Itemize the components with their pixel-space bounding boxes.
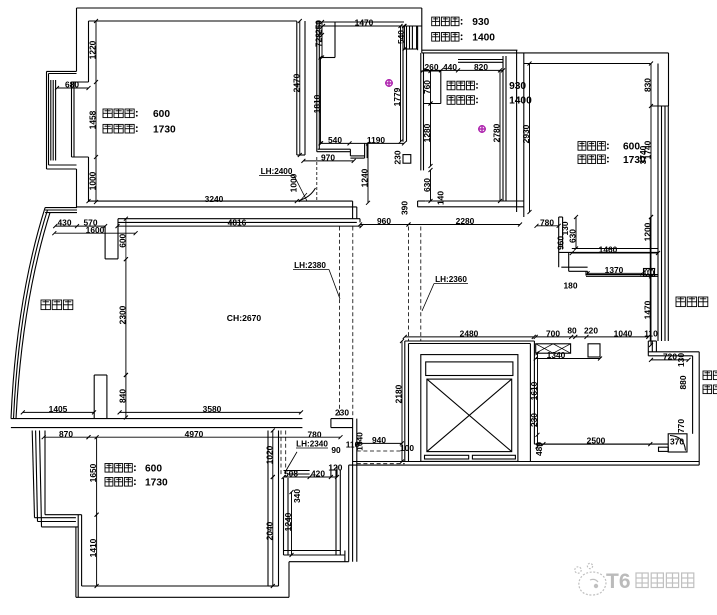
svg-text:230: 230 (529, 413, 539, 427)
elevator car (421, 355, 518, 462)
svg-text:120: 120 (328, 463, 342, 473)
svg-text:1458: 1458 (88, 110, 98, 129)
svg-text:600: 600 (145, 464, 162, 475)
room5 corner door box + arc (668, 434, 687, 452)
svg-text:2300: 2300 (118, 305, 128, 324)
room1 bottom wall (89, 200, 353, 202)
svg-text:370: 370 (670, 437, 684, 447)
svg-text:180: 180 (564, 281, 578, 291)
room4 right outer wall top (668, 53, 670, 106)
svg-text:1460: 1460 (599, 245, 618, 255)
room4 inner top wall (524, 63, 651, 65)
svg-text:1600: 1600 (86, 225, 105, 235)
svg-text:390: 390 (400, 201, 410, 215)
bath2 right wall (402, 26, 404, 142)
bathroom2 left wall (316, 21, 318, 152)
svg-text:100: 100 (400, 443, 414, 453)
svg-text:1400: 1400 (509, 96, 532, 107)
svg-text:440: 440 (443, 62, 457, 72)
outer right wall (698, 352, 700, 465)
svg-text:430: 430 (58, 218, 72, 228)
svg-text:880: 880 (678, 375, 688, 389)
window label room3 (447, 81, 455, 90)
dims room6 (23, 411, 94, 413)
svg-text:2470: 2470 (291, 73, 301, 92)
svg-text:780: 780 (308, 430, 322, 440)
floor window label right (676, 297, 685, 307)
svg-text:1280: 1280 (422, 123, 432, 142)
svg-text:1340: 1340 (547, 350, 566, 360)
living room top wall (118, 218, 360, 220)
left outer wall upper (76, 8, 78, 71)
elevator shaft walls (405, 340, 535, 342)
dims room5 top (536, 336, 649, 338)
svg-text:2930: 2930 (521, 124, 531, 143)
axis marker 1 (385, 79, 393, 87)
watermark logo (575, 563, 606, 595)
svg-text:3580: 3580 (203, 404, 222, 414)
bottom outer wall (353, 461, 700, 463)
svg-text:130: 130 (676, 353, 686, 367)
corridor wall pair down (352, 419, 354, 562)
curved curtain wall (11, 208, 45, 419)
bath2 bottom wall (318, 148, 351, 150)
living west wall stub B (93, 375, 95, 419)
room4 bottom wall (572, 248, 658, 250)
svg-text:1730: 1730 (623, 155, 646, 166)
svg-text:600: 600 (623, 142, 640, 153)
svg-text:1640: 1640 (355, 432, 365, 451)
room6 bay window (32, 431, 34, 518)
svg-text:1410: 1410 (88, 538, 98, 557)
dims room4 (529, 64, 531, 213)
bath2 duct box (334, 22, 336, 58)
top wall right section (422, 49, 518, 51)
svg-text:1240: 1240 (360, 168, 370, 187)
svg-text:600: 600 (153, 109, 170, 120)
room6 left wall (77, 515, 79, 598)
svg-text:1779: 1779 (392, 87, 402, 106)
bath2 top wall inner (317, 21, 404, 23)
svg-text:110: 110 (644, 329, 658, 339)
svg-text:LH:2340: LH:2340 (296, 439, 328, 448)
svg-text:420: 420 (311, 469, 325, 479)
left outer wall lower (76, 169, 78, 208)
svg-text:700: 700 (546, 329, 560, 339)
dims room3 (423, 69, 503, 71)
outer top wall (77, 7, 422, 9)
svg-text:230: 230 (335, 408, 349, 418)
svg-text:1190: 1190 (367, 135, 386, 145)
dims room1 left (95, 21, 97, 202)
bay window top-left (1458 window) (47, 70, 77, 72)
svg-text:T6: T6 (606, 570, 631, 593)
svg-text:230: 230 (393, 150, 403, 164)
room1 door dashes (316, 157, 318, 202)
svg-text:600: 600 (118, 233, 128, 247)
svg-text:140: 140 (436, 191, 446, 205)
svg-text:CH:2670: CH:2670 (227, 313, 262, 323)
room1 door arc (299, 188, 316, 201)
svg-text:4970: 4970 (185, 429, 204, 439)
dashed beams living room (339, 227, 341, 419)
window label room4 (578, 142, 586, 151)
svg-text:340: 340 (292, 489, 302, 503)
svg-text:4816: 4816 (228, 218, 247, 228)
bath2 window top right (403, 25, 422, 27)
svg-text:1000: 1000 (88, 171, 98, 190)
dims living west (55, 225, 105, 227)
room3 left wall + duct (420, 53, 422, 170)
svg-text:220: 220 (584, 326, 598, 336)
svg-text:2780: 2780 (492, 123, 502, 142)
svg-text:508: 508 (284, 469, 298, 479)
room1 right wall (296, 21, 298, 155)
svg-text:LH:2360: LH:2360 (435, 275, 467, 284)
room3 bottom wall (425, 200, 524, 202)
svg-text:940: 940 (372, 435, 386, 445)
axis marker 2 (478, 125, 486, 133)
svg-text:830: 830 (643, 78, 653, 92)
window label top middle (432, 17, 440, 26)
east floor-to-ceiling window (657, 106, 659, 341)
svg-text:760: 760 (422, 80, 432, 94)
svg-text:1810: 1810 (312, 94, 322, 113)
window label room1 (103, 109, 112, 118)
svg-text:480: 480 (534, 442, 544, 456)
svg-text:2500: 2500 (587, 436, 606, 446)
svg-text:540: 540 (396, 30, 406, 44)
room6 top wall (11, 418, 303, 420)
svg-text:2180: 2180 (394, 384, 404, 403)
svg-text:1400: 1400 (472, 33, 495, 44)
svg-text:870: 870 (59, 429, 73, 439)
svg-text:1470: 1470 (355, 18, 374, 28)
hatch box kitchen wall (536, 344, 571, 353)
svg-text:970: 970 (321, 153, 335, 163)
svg-text:840: 840 (118, 389, 128, 403)
room6 right wall (267, 431, 269, 587)
svg-text:540: 540 (328, 135, 342, 145)
svg-text:630: 630 (422, 178, 432, 192)
dims elevator (405, 336, 534, 338)
svg-text:2040: 2040 (264, 521, 274, 540)
outer step wall x=421.8 (421, 8, 423, 53)
svg-text:1240: 1240 (283, 512, 293, 531)
svg-text:680: 680 (65, 80, 79, 90)
svg-text:728: 728 (314, 33, 324, 47)
svg-text:1730: 1730 (153, 124, 176, 135)
svg-text:930: 930 (509, 81, 526, 92)
dims bath2 (321, 22, 323, 58)
hatch box small corridor (644, 269, 655, 277)
svg-text:1020: 1020 (264, 445, 274, 464)
wall stub x=558.7 (558, 217, 560, 267)
svg-text:1470: 1470 (643, 300, 653, 319)
svg-text:80: 80 (567, 326, 577, 336)
svg-text:770: 770 (676, 419, 686, 433)
room5 interior bottom line (534, 443, 668, 445)
svg-text:630: 630 (568, 229, 578, 243)
outer boundary step bottom middle (288, 562, 290, 598)
svg-text:1040: 1040 (614, 329, 633, 339)
svg-text:780: 780 (540, 217, 554, 227)
right edge partial labels (703, 371, 712, 380)
svg-text:3240: 3240 (205, 194, 224, 204)
svg-text:820: 820 (474, 62, 488, 72)
svg-text:LH:2400: LH:2400 (261, 167, 293, 176)
bath7 walls (283, 478, 285, 555)
room6 bottom wall (82, 585, 268, 587)
svg-text:1220: 1220 (88, 40, 98, 59)
bath7 door leaf (285, 452, 297, 473)
svg-text:930: 930 (472, 17, 489, 28)
room3 top window glazing (458, 59, 503, 61)
svg-text:2480: 2480 (460, 329, 479, 339)
room5 top-right corner post (648, 340, 656, 342)
svg-text:1610: 1610 (529, 381, 539, 400)
dashed beam hallway7 (280, 431, 282, 476)
room3 right wall (502, 56, 504, 201)
svg-text:1200: 1200 (643, 222, 653, 241)
svg-text:LH:2380: LH:2380 (294, 261, 326, 270)
svg-text:1730: 1730 (145, 478, 168, 489)
corridor walls to balcony (561, 266, 587, 268)
svg-text:90: 90 (331, 445, 341, 455)
dashed beam corridor horizontal (357, 450, 402, 452)
svg-text:1000: 1000 (289, 173, 299, 192)
svg-text:1405: 1405 (49, 404, 68, 414)
hall jog box (403, 155, 411, 164)
svg-text:1650: 1650 (88, 463, 98, 482)
svg-text:960: 960 (377, 216, 391, 226)
window label room6 (105, 464, 113, 473)
room3/room4 dividing wall (516, 50, 518, 212)
wall stub 220 (588, 344, 600, 357)
svg-text:960: 960 (556, 236, 566, 250)
floor window label left (41, 300, 50, 310)
room5 top wall right (648, 351, 699, 353)
svg-text:1370: 1370 (605, 265, 624, 275)
living west wall stub A (104, 226, 106, 259)
svg-text:2280: 2280 (456, 216, 475, 226)
